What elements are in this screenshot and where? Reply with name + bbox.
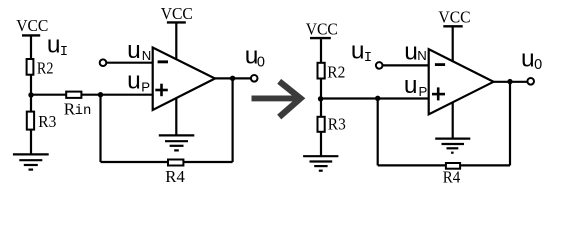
node: right divider junction [318, 96, 323, 101]
terminal: left u_N input open circle [100, 59, 107, 66]
svg-text:VCC: VCC [306, 20, 338, 39]
wire: left VCC rail down through R2,R3 to ground [30, 37, 32, 154]
svg-text:R2: R2 [327, 62, 345, 81]
op-amp U1 triangle [153, 48, 215, 111]
svg-text:R3: R3 [38, 112, 56, 131]
resistor R3 (left) [27, 112, 34, 130]
resistor R4 (left) [168, 160, 183, 166]
svg-text:P: P [141, 80, 150, 95]
svg-text:R4: R4 [165, 167, 185, 186]
wire: left feedback vertical at output node [232, 78, 234, 162]
resistor Rin [66, 92, 81, 98]
node: left u_P feedback tap junction [98, 92, 103, 97]
svg-text:u: u [404, 38, 418, 65]
wire: right feedback vertical at output node [509, 82, 511, 166]
ground: U1 [159, 135, 195, 150]
svg-text:I: I [364, 50, 372, 66]
wire: left op-amp ground stub [175, 96, 177, 135]
svg-text:N: N [417, 48, 427, 63]
resistor R2 (left) [27, 59, 34, 75]
svg-text:N: N [142, 48, 152, 63]
ground: U2 [435, 139, 470, 153]
resistor R2 (right) [318, 63, 325, 79]
wire: right VCC rail down through R2,R3 to ground [320, 39, 322, 156]
svg-text:in: in [75, 103, 92, 119]
wire: right feedback vertical at u_P tap [377, 98, 379, 165]
resistor R4 (right) [446, 163, 460, 169]
wire: left u_N input from terminal to op-amp [105, 62, 153, 64]
wire: right op-amp VCC stub [452, 26, 454, 64]
transform arrow between circuits [252, 81, 301, 117]
svg-text:VCC: VCC [16, 16, 48, 35]
node: right output junction [507, 79, 512, 84]
power VCC bar left divider [22, 34, 40, 36]
power VCC bar for U1 [167, 21, 186, 23]
wire: left output from apex to terminal [214, 77, 251, 79]
svg-text:u: u [127, 37, 141, 64]
op-amp U2 triangle [429, 49, 494, 114]
wire: right u_N input from terminal to op-amp [381, 64, 429, 66]
ground: left divider [13, 154, 49, 169]
svg-text:P: P [419, 84, 428, 99]
svg-text:I: I [60, 44, 68, 60]
svg-text:R3: R3 [328, 114, 346, 133]
power VCC bar right divider [310, 37, 331, 39]
svg-text:u: u [404, 72, 418, 99]
svg-text:0: 0 [257, 54, 265, 70]
svg-text:VCC: VCC [438, 8, 470, 27]
svg-text:u: u [351, 37, 365, 64]
terminal: left output open circle [251, 75, 258, 82]
svg-text:u: u [521, 46, 535, 73]
terminal: right output open circle [527, 78, 534, 85]
ground: right divider [303, 156, 338, 171]
wire: left op-amp VCC stub [175, 22, 177, 62]
svg-text:R2: R2 [37, 58, 54, 77]
node: right u_P feedback tap junction [375, 96, 380, 101]
plus sign U1 non-inverting input [155, 84, 168, 97]
node: left output junction [230, 76, 235, 81]
svg-text:R4: R4 [443, 168, 461, 187]
resistor R3 (right) [318, 117, 325, 132]
wire: left u_P horizontal from divider junction to op-amp [31, 94, 153, 96]
minus sign U2 inverting input [435, 63, 445, 66]
wire: right op-amp ground stub [452, 100, 454, 138]
wire: right feedback bottom horizontal through R4 [378, 164, 510, 166]
svg-text:VCC: VCC [161, 4, 193, 23]
wire: left feedback vertical at u_P tap [99, 95, 101, 162]
minus sign U1 inverting input [158, 60, 168, 63]
svg-text:u: u [127, 68, 141, 95]
plus sign U2 non-inverting input [432, 87, 445, 100]
wire: right output from apex to terminal [493, 81, 528, 83]
power VCC bar for U2 [443, 25, 462, 27]
wire: left feedback bottom horizontal through R4 [101, 161, 233, 163]
terminal: right u_I open circle [376, 62, 383, 69]
wire: right u_P horizontal from divider junction to op-amp [321, 97, 429, 99]
svg-text:u: u [47, 31, 61, 58]
node: left divider junction [28, 92, 33, 97]
svg-text:0: 0 [534, 57, 542, 73]
